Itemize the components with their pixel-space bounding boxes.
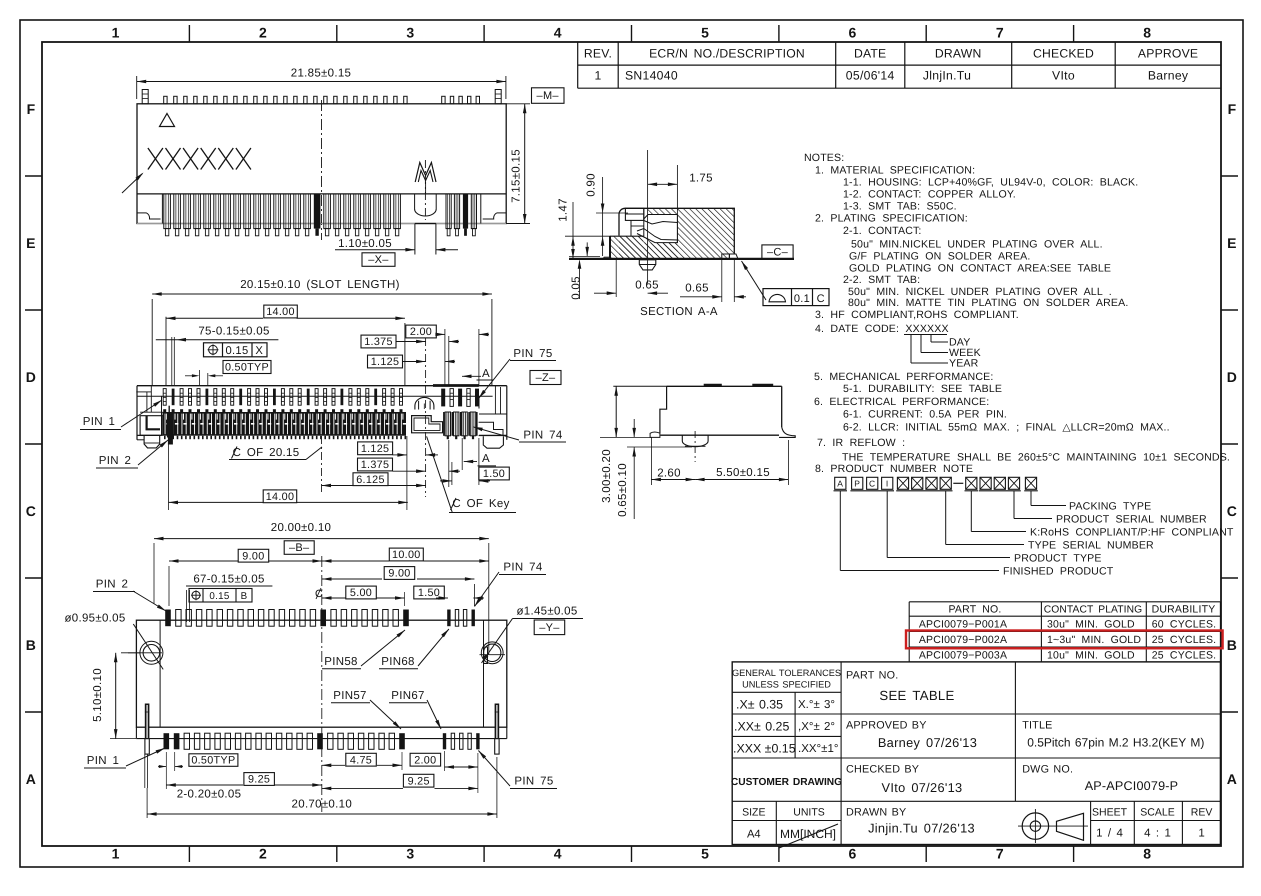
svg-text:10u" MIN. GOLD: 10u" MIN. GOLD — [1047, 649, 1135, 661]
svg-text:1.47: 1.47 — [558, 198, 570, 222]
svg-text:.XXX ±0.15: .XXX ±0.15 — [733, 742, 796, 756]
svg-text:PIN 1: PIN 1 — [83, 416, 115, 428]
svg-text:25 CYCLES.: 25 CYCLES. — [1152, 649, 1217, 661]
svg-text:PIN68: PIN68 — [381, 656, 414, 668]
svg-text:G/F PLATING ON SOLDER AREA: G/F PLATING ON SOLDER AREA. — [849, 251, 1030, 263]
svg-text:60 CYCLES.: 60 CYCLES. — [1152, 619, 1217, 631]
svg-text:E: E — [1227, 235, 1237, 251]
svg-text:UNLESS SPECIFIED: UNLESS SPECIFIED — [742, 680, 831, 690]
svg-text:THE TEMPERATURE SHALL BE 260±5: THE TEMPERATURE SHALL BE 260±5°C MAINTAI… — [842, 452, 1230, 464]
svg-text:50u" MIN.NICKEL UNDER PLATI: 50u" MIN.NICKEL UNDER PLATING OVER ALL. — [851, 239, 1103, 251]
svg-text:67-0.15±0.05: 67-0.15±0.05 — [193, 574, 264, 586]
svg-text:3. HF COMPLIANT,ROHS COMPLI: 3. HF COMPLIANT,ROHS COMPLIANT. — [815, 309, 1019, 321]
svg-text:1: 1 — [1198, 828, 1204, 840]
svg-text:3: 3 — [406, 846, 414, 862]
svg-text:PIN 1: PIN 1 — [87, 755, 119, 767]
svg-text:A4: A4 — [747, 829, 761, 841]
svg-text:2-2. SMT TAB:: 2-2. SMT TAB: — [843, 274, 920, 286]
svg-text:DRAWN: DRAWN — [935, 47, 982, 61]
svg-text:REV.: REV. — [584, 47, 612, 61]
svg-text:P: P — [854, 479, 860, 489]
svg-text:C: C — [1227, 503, 1237, 519]
svg-text:21.85±0.15: 21.85±0.15 — [291, 68, 351, 80]
svg-text:A: A — [482, 368, 490, 380]
svg-text:PIN58: PIN58 — [324, 656, 357, 668]
svg-text:0.90: 0.90 — [586, 173, 598, 197]
svg-text:0.05: 0.05 — [571, 276, 583, 300]
svg-text:2-1. CONTACT:: 2-1. CONTACT: — [843, 225, 922, 237]
svg-text:9.00: 9.00 — [242, 550, 264, 562]
svg-text:PIN 75: PIN 75 — [513, 348, 552, 360]
svg-text:6. ELECTRICAL PERFORMANCE:: 6. ELECTRICAL PERFORMANCE: — [814, 396, 989, 408]
svg-text:X.°± 3°: X.°± 3° — [798, 699, 835, 711]
svg-text:–X–: –X– — [368, 254, 389, 266]
svg-text:5.10±0.10: 5.10±0.10 — [92, 668, 104, 722]
svg-text:0.65: 0.65 — [685, 283, 709, 295]
svg-text:NOTES:: NOTES: — [804, 152, 844, 164]
svg-text:30u" MIN. GOLD: 30u" MIN. GOLD — [1047, 619, 1135, 631]
svg-text:20.00±0.10: 20.00±0.10 — [271, 522, 331, 534]
svg-text:ø0.95±0.05: ø0.95±0.05 — [64, 613, 125, 625]
svg-text:4 : 1: 4 : 1 — [1144, 828, 1171, 840]
svg-text:4.75: 4.75 — [350, 754, 372, 766]
svg-text:2.00: 2.00 — [414, 754, 436, 766]
svg-text:CUSTOMER DRAWING: CUSTOMER DRAWING — [731, 777, 842, 788]
svg-text:2: 2 — [259, 25, 267, 41]
svg-text:0.1: 0.1 — [794, 293, 810, 305]
svg-text:DRAWN BY: DRAWN BY — [846, 807, 906, 819]
svg-text:TITLE: TITLE — [1022, 720, 1052, 732]
svg-text:6.125: 6.125 — [356, 474, 385, 486]
svg-text:6-2. LLCR: INITIAL 55mΩ MA: 6-2. LLCR: INITIAL 55mΩ MAX. ; FINAL △LL… — [843, 422, 1170, 434]
svg-text:14.00: 14.00 — [266, 306, 295, 318]
svg-text:75-0.15±0.05: 75-0.15±0.05 — [198, 326, 269, 338]
svg-text:1. MATERIAL SPECIFICATION:: 1. MATERIAL SPECIFICATION: — [815, 165, 975, 177]
svg-text:DWG NO.: DWG NO. — [1022, 764, 1073, 776]
svg-text:1: 1 — [594, 69, 601, 83]
svg-text:2: 2 — [259, 846, 267, 862]
svg-text:3: 3 — [406, 25, 414, 41]
svg-text:1.50: 1.50 — [418, 587, 440, 599]
svg-text:PIN 74: PIN 74 — [503, 562, 542, 574]
svg-text:C: C — [817, 293, 825, 305]
svg-text:JlnjIn.Tu: JlnjIn.Tu — [923, 69, 971, 83]
svg-text:VIto: VIto — [1052, 69, 1075, 83]
svg-text:6-1. CURRENT: 0.5A PER PIN: 6-1. CURRENT: 0.5A PER PIN. — [843, 409, 1007, 421]
svg-text:PIN 74: PIN 74 — [523, 430, 562, 442]
svg-text:0.65±0.10: 0.65±0.10 — [617, 463, 629, 517]
svg-text:05/06'14: 05/06'14 — [846, 69, 895, 83]
svg-text:FINISHED PRODUCT: FINISHED PRODUCT — [1003, 566, 1114, 578]
svg-text:PIN67: PIN67 — [391, 690, 424, 702]
svg-text:1~3u" MIN. GOLD: 1~3u" MIN. GOLD — [1047, 634, 1141, 646]
svg-text:5: 5 — [701, 25, 709, 41]
svg-text:Barney: Barney — [1148, 69, 1189, 83]
svg-text:2-0.20±0.05: 2-0.20±0.05 — [177, 789, 242, 801]
svg-text:I: I — [886, 479, 889, 489]
svg-text:D: D — [1227, 369, 1237, 385]
svg-text:20.70±0.10: 20.70±0.10 — [292, 799, 352, 811]
svg-text:REV: REV — [1191, 807, 1213, 819]
svg-text:0.15: 0.15 — [209, 591, 230, 602]
svg-text:7: 7 — [996, 846, 1004, 862]
svg-text:SHEET: SHEET — [1092, 807, 1128, 819]
svg-text:6: 6 — [849, 25, 857, 41]
svg-text:8. PRODUCT NUMBER NOTE: 8. PRODUCT NUMBER NOTE — [815, 463, 973, 475]
svg-text:.XX°±1°: .XX°±1° — [798, 743, 838, 755]
svg-text:Barney 07/26'13: Barney 07/26'13 — [878, 735, 977, 750]
svg-text:PIN 2: PIN 2 — [99, 455, 131, 467]
svg-text:MM[INCH]: MM[INCH] — [780, 827, 836, 841]
svg-text:CHECKED: CHECKED — [1033, 47, 1094, 61]
svg-text:CONTACT PLATING: CONTACT PLATING — [1044, 605, 1142, 616]
svg-text:PACKING TYPE: PACKING TYPE — [1069, 501, 1151, 513]
svg-text:.XX± 0.25: .XX± 0.25 — [734, 720, 789, 734]
svg-text:ø1.45±0.05: ø1.45±0.05 — [516, 606, 577, 618]
svg-text:APPROVE: APPROVE — [1138, 47, 1198, 61]
svg-text:B: B — [1227, 637, 1237, 653]
svg-text:0.5Pitch 67pin M.2 H3.2(KEY M): 0.5Pitch 67pin M.2 H3.2(KEY M) — [1027, 736, 1204, 750]
svg-text:1: 1 — [112, 846, 120, 862]
svg-text:0.50TYP: 0.50TYP — [225, 362, 269, 374]
svg-text:F: F — [1228, 101, 1237, 117]
svg-text:7: 7 — [996, 25, 1004, 41]
svg-text:4. DATE CODE: XXXXXX: 4. DATE CODE: XXXXXX — [815, 323, 949, 335]
svg-text:0.65: 0.65 — [635, 280, 659, 292]
svg-text:5.00: 5.00 — [350, 587, 372, 599]
svg-text:C: C — [26, 503, 36, 519]
svg-text:5.50±0.15: 5.50±0.15 — [716, 467, 770, 479]
svg-text:PRODUCT SERIAL NUMBER: PRODUCT SERIAL NUMBER — [1056, 514, 1207, 526]
svg-text:K:RoHS CONPLIANT/P:HF CONPLI: K:RoHS CONPLIANT/P:HF CONPLIANT — [1030, 527, 1234, 539]
svg-text:SECTION A-A: SECTION A-A — [640, 306, 718, 318]
svg-text:SIZE: SIZE — [742, 807, 765, 819]
svg-text:A: A — [837, 479, 843, 489]
svg-text:–B–: –B– — [289, 542, 310, 554]
svg-text:4: 4 — [554, 25, 562, 41]
svg-text:4: 4 — [554, 846, 562, 862]
svg-text:PART NO.: PART NO. — [846, 670, 898, 682]
svg-text:25 CYCLES.: 25 CYCLES. — [1152, 634, 1217, 646]
svg-text:6: 6 — [849, 846, 857, 862]
svg-text:0.15: 0.15 — [226, 345, 249, 357]
svg-text:80u" MIN. MATTE TIN PLATIN: 80u" MIN. MATTE TIN PLATING ON SOLDER AR… — [848, 297, 1128, 309]
svg-text:TYPE SERIAL NUMBER: TYPE SERIAL NUMBER — [1028, 540, 1154, 552]
svg-text:DATE: DATE — [854, 47, 886, 61]
svg-text:PIN57: PIN57 — [333, 690, 366, 702]
svg-text:1: 1 — [112, 25, 120, 41]
svg-text:20.15±0.10 (SLOT LENGTH): 20.15±0.10 (SLOT LENGTH) — [240, 279, 400, 291]
svg-text:7.15±0.15: 7.15±0.15 — [511, 149, 523, 203]
svg-text:0.50TYP: 0.50TYP — [191, 755, 235, 767]
svg-text:AP-APCI0079-P: AP-APCI0079-P — [1085, 779, 1179, 793]
svg-text:C: C — [869, 479, 875, 489]
svg-text:1.125: 1.125 — [361, 443, 390, 455]
svg-text:2.60: 2.60 — [657, 468, 681, 480]
svg-text:UNITS: UNITS — [793, 807, 825, 819]
svg-text:PRODUCT TYPE: PRODUCT TYPE — [1014, 553, 1102, 565]
svg-text:1.375: 1.375 — [361, 459, 390, 471]
svg-text:A: A — [482, 453, 490, 465]
svg-text:APPROVED BY: APPROVED BY — [846, 720, 927, 732]
svg-text:F: F — [27, 101, 36, 117]
svg-text:–M–: –M– — [537, 90, 560, 102]
svg-text:1 / 4: 1 / 4 — [1096, 828, 1123, 840]
svg-text:7. IR REFLOW :: 7. IR REFLOW : — [817, 437, 905, 449]
svg-text:PIN 2: PIN 2 — [96, 579, 128, 591]
svg-text:1.375: 1.375 — [364, 336, 393, 348]
svg-text:10.00: 10.00 — [392, 549, 421, 561]
svg-text:A: A — [26, 771, 36, 787]
svg-text:GENERAL TOLERANCES: GENERAL TOLERANCES — [732, 668, 841, 678]
svg-text:YEAR: YEAR — [949, 358, 979, 370]
svg-text:CHECKED BY: CHECKED BY — [846, 764, 919, 776]
svg-text:9.25: 9.25 — [248, 774, 270, 786]
svg-text:,X°± 2°: ,X°± 2° — [798, 721, 835, 733]
svg-text:SN14040: SN14040 — [625, 69, 678, 83]
svg-text:8: 8 — [1143, 25, 1151, 41]
svg-text:B: B — [241, 591, 248, 602]
svg-text:1-2. CONTACT: COPPER ALLOY.: 1-2. CONTACT: COPPER ALLOY. — [843, 189, 1016, 201]
svg-text:A: A — [1227, 771, 1237, 787]
svg-text:GOLD PLATING ON CONTACT: GOLD PLATING ON CONTACT AREA:SEE TABLE — [849, 263, 1111, 275]
svg-text:2.00: 2.00 — [410, 326, 432, 338]
svg-text:1.10±0.05: 1.10±0.05 — [338, 238, 392, 250]
svg-text:Jinjin.Tu 07/26'13: Jinjin.Tu 07/26'13 — [868, 821, 975, 836]
svg-text:3.00±0.20: 3.00±0.20 — [601, 449, 613, 503]
svg-text:5-1. DURABILITY: SEE TABLE: 5-1. DURABILITY: SEE TABLE — [843, 383, 1002, 395]
svg-text:9.00: 9.00 — [388, 568, 410, 580]
svg-text:ECR/N NO./DESCRIPTION: ECR/N NO./DESCRIPTION — [649, 47, 805, 61]
svg-text:D: D — [26, 369, 36, 385]
svg-text:–C–: –C– — [767, 247, 789, 259]
svg-text:B: B — [26, 637, 36, 653]
svg-text:C OF 20.15: C OF 20.15 — [233, 447, 300, 459]
svg-text:1-3. SMT TAB: S50C.: 1-3. SMT TAB: S50C. — [843, 201, 957, 213]
svg-text:1.125: 1.125 — [371, 356, 400, 368]
svg-text:VIto 07/26'13: VIto 07/26'13 — [882, 780, 963, 795]
svg-text:–Z–: –Z– — [536, 372, 556, 384]
svg-text:–Y–: –Y– — [539, 622, 560, 634]
svg-text:SEE TABLE: SEE TABLE — [879, 688, 954, 703]
svg-text:1-1. HOUSING: LCP+40%GF, UL: 1-1. HOUSING: LCP+40%GF, UL94V-0, COLOR:… — [843, 177, 1138, 189]
svg-text:X: X — [255, 345, 263, 357]
svg-text:APCI0079−P001A: APCI0079−P001A — [919, 619, 1007, 631]
svg-text:C OF Key: C OF Key — [452, 498, 509, 510]
svg-text:PIN 75: PIN 75 — [514, 776, 553, 788]
svg-text:5: 5 — [701, 846, 709, 862]
svg-text:DURABILITY: DURABILITY — [1152, 604, 1216, 616]
svg-text:PART NO.: PART NO. — [948, 604, 1001, 616]
svg-text:E: E — [26, 235, 36, 251]
svg-text:8: 8 — [1143, 846, 1151, 862]
svg-text:APCI0079−P003A: APCI0079−P003A — [919, 649, 1007, 661]
svg-text:5. MECHANICAL PERFORMANCE:: 5. MECHANICAL PERFORMANCE: — [814, 371, 993, 383]
svg-text:2. PLATING SPECIFICATION:: 2. PLATING SPECIFICATION: — [815, 213, 968, 225]
svg-text:SCALE: SCALE — [1140, 807, 1174, 819]
svg-text:9.25: 9.25 — [408, 775, 430, 787]
svg-text:1.50: 1.50 — [483, 468, 505, 480]
svg-text:14.00: 14.00 — [266, 491, 295, 503]
svg-text:1.75: 1.75 — [689, 173, 713, 185]
svg-text:.X± 0.35: .X± 0.35 — [736, 698, 783, 712]
svg-text:APCI0079−P002A: APCI0079−P002A — [919, 634, 1007, 646]
